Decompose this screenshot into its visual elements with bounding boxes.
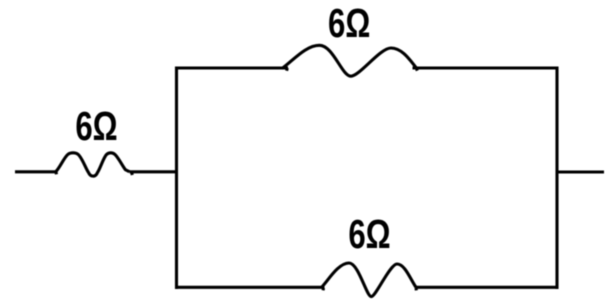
- wire bottom-right segment: [416, 286, 559, 289]
- wire bottom-left segment: [175, 286, 325, 289]
- node tick left resistor end: [130, 172, 134, 175]
- resistor R2 (top 6Ω): [282, 45, 417, 76]
- svg-text:6Ω: 6Ω: [348, 211, 390, 257]
- wire left vertical branch: [175, 67, 178, 290]
- svg-text:6Ω: 6Ω: [75, 103, 117, 149]
- node tick top resistor start: [285, 68, 289, 71]
- node tick bottom resistor end: [414, 288, 417, 290]
- wire right vertical branch: [555, 67, 558, 290]
- wire R1 to left branch node: [130, 170, 179, 173]
- wire top-right segment: [413, 66, 559, 69]
- wire right stub: [557, 170, 604, 173]
- node tick bottom resistor start: [321, 288, 325, 290]
- wire left lead: [15, 170, 57, 173]
- resistor R3 (bottom 6Ω): [322, 263, 417, 297]
- wire top-left segment: [175, 66, 288, 69]
- svg-text:6Ω: 6Ω: [328, 0, 370, 46]
- node tick left resistor start: [54, 172, 58, 174]
- resistor R1 (left 6Ω): [56, 153, 130, 176]
